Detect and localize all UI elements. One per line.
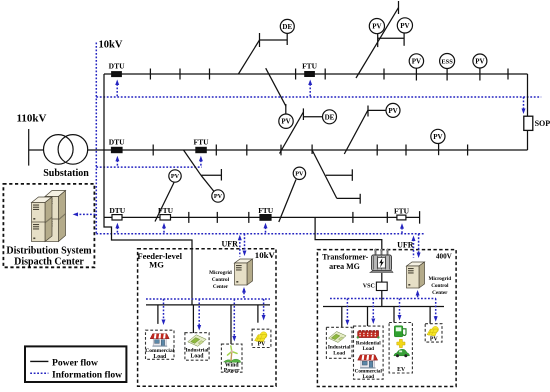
svg-text:Transformer-: Transformer-	[322, 253, 369, 262]
svg-text:DTU: DTU	[109, 62, 125, 71]
svg-text:Dispacth Center: Dispacth Center	[14, 257, 84, 268]
svg-text:PV: PV	[372, 23, 381, 31]
svg-text:Power flow: Power flow	[52, 357, 98, 368]
svg-text:Industrial: Industrial	[328, 344, 351, 350]
svg-text:400V: 400V	[436, 253, 453, 261]
svg-text:FTU: FTU	[394, 207, 410, 216]
svg-text:Center: Center	[432, 290, 448, 296]
svg-text:FTU: FTU	[302, 62, 318, 71]
svg-text:10kV: 10kV	[99, 40, 123, 51]
svg-text:PV: PV	[388, 107, 397, 115]
svg-text:Center: Center	[213, 284, 229, 290]
svg-text:VSC: VSC	[363, 284, 375, 290]
svg-text:UFR: UFR	[397, 240, 414, 249]
svg-text:Information flow: Information flow	[52, 369, 122, 380]
svg-text:PV: PV	[400, 22, 409, 30]
svg-text:Control: Control	[431, 283, 449, 289]
svg-text:DE: DE	[325, 113, 335, 121]
svg-text:SOP: SOP	[535, 119, 550, 128]
svg-text:PV: PV	[433, 133, 442, 141]
svg-text:ESS: ESS	[441, 58, 453, 65]
svg-text:MG: MG	[149, 260, 164, 270]
svg-text:FTU: FTU	[258, 206, 274, 215]
svg-text:10kV: 10kV	[255, 250, 276, 260]
svg-text:Microgrid: Microgrid	[209, 270, 232, 276]
svg-text:PV: PV	[258, 341, 267, 347]
svg-text:FTU: FTU	[158, 206, 174, 215]
svg-text:area MG: area MG	[329, 262, 360, 271]
svg-text:PV: PV	[214, 193, 223, 200]
svg-text:Load: Load	[363, 346, 375, 352]
svg-text:PV: PV	[171, 173, 180, 180]
svg-text:DTU: DTU	[109, 206, 125, 215]
svg-text:110kV: 110kV	[17, 112, 47, 124]
svg-text:EV: EV	[397, 367, 406, 373]
svg-text:DE: DE	[282, 23, 292, 31]
svg-text:PV: PV	[412, 58, 421, 66]
svg-text:Commercial: Commercial	[145, 348, 174, 354]
svg-text:Load: Load	[153, 354, 167, 360]
svg-text:Microgrid: Microgrid	[428, 276, 451, 282]
svg-text:Load: Load	[363, 374, 375, 380]
svg-text:Distribution System: Distribution System	[6, 246, 92, 257]
svg-text:Substation: Substation	[43, 168, 89, 179]
svg-text:DTU: DTU	[109, 138, 125, 147]
svg-text:Load: Load	[333, 351, 345, 357]
svg-text:PV: PV	[475, 58, 484, 66]
svg-text:PV: PV	[295, 171, 304, 178]
svg-text:FTU: FTU	[194, 138, 210, 147]
svg-text:Load: Load	[191, 353, 205, 359]
svg-text:Control: Control	[212, 277, 230, 283]
svg-text:PV: PV	[281, 118, 290, 126]
svg-text:PV: PV	[430, 336, 439, 342]
svg-text:UFR: UFR	[222, 239, 239, 248]
svg-text:Power: Power	[224, 368, 240, 374]
